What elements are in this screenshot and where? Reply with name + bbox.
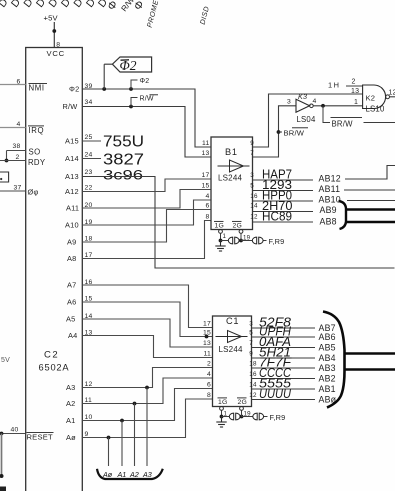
svg-text:5V: 5V (1, 357, 10, 364)
wire B1 pin 5 with value 1293 (253, 190, 314, 192)
svg-text:Φ2: Φ2 (140, 78, 150, 85)
wire A10 to B1 pin 4 (82, 200, 211, 225)
svg-text:17: 17 (203, 321, 211, 328)
B1 1G pin inversion bubble (219, 230, 223, 234)
svg-text:37: 37 (14, 184, 22, 191)
svg-text:2G: 2G (238, 399, 247, 406)
svg-text:2: 2 (207, 361, 211, 368)
svg-text:R/W: R/W (140, 95, 154, 102)
svg-text:R/W: R/W (63, 102, 78, 111)
junction dot SO/RDY (5, 159, 9, 163)
wire A4 to C1 pin 11 (82, 336, 212, 358)
junction dot A2 branch (133, 402, 137, 406)
B1 buffer symbol (218, 160, 250, 172)
wire RESET going down off-page (1, 434, 3, 477)
svg-text:IRQ: IRQ (29, 126, 45, 135)
svg-text:C2: C2 (44, 350, 59, 361)
svg-text:SO: SO (29, 148, 41, 157)
svg-text:C1: C1 (226, 316, 239, 326)
connector pair at C1 enables (229, 413, 240, 420)
svg-text:2G: 2G (233, 222, 242, 229)
svg-text:UUUU: UUUU (259, 386, 292, 401)
svg-text:A2: A2 (66, 399, 75, 408)
svg-text:12: 12 (389, 89, 395, 96)
wire A0 to C1 pin 8 (82, 399, 212, 438)
svg-text:15: 15 (203, 330, 211, 337)
wire AB10 to right edge (347, 200, 395, 202)
svg-text:40: 40 (11, 426, 19, 433)
svg-text:18: 18 (249, 361, 257, 368)
svg-text:K2: K2 (366, 93, 376, 102)
net flag box (cut off at left edge) (0, 172, 9, 182)
wire B1 pin 3 with value HAP7 (253, 179, 314, 181)
svg-text:K3: K3 (298, 92, 307, 101)
svg-text:4: 4 (313, 98, 317, 105)
svg-text:Aø: Aø (102, 470, 113, 479)
junction dot A3 branch (145, 386, 149, 390)
junction dot on +5V wire (52, 29, 56, 33)
C1 1G pin inversion bubble (220, 407, 224, 411)
net label BR/W with overline at K2 (323, 106, 330, 123)
wire A13 down and across to right edge (82, 177, 394, 269)
svg-text:RDY: RDY (28, 158, 46, 167)
svg-text:A12: A12 (65, 187, 79, 196)
bus wire thick lower from C1 brace (344, 368, 395, 370)
svg-text:RESET: RESET (27, 433, 53, 442)
ground symbol below C1 (216, 417, 226, 428)
svg-text:AB1: AB1 (319, 384, 336, 394)
svg-text:23: 23 (85, 169, 93, 176)
svg-text:6: 6 (207, 382, 211, 389)
wire A2 drop to connector brace (134, 404, 136, 467)
svg-text:17: 17 (202, 172, 210, 179)
svg-text:11: 11 (202, 140, 209, 147)
wire A2 to C1 pin 4 (82, 378, 212, 404)
wire B1 ground node to connector (221, 240, 229, 242)
net label BR/W (279, 131, 283, 133)
svg-text:5: 5 (249, 330, 253, 337)
svg-text:AB11: AB11 (319, 184, 341, 194)
wire B1 pin 12 with value HC89 (253, 221, 314, 223)
svg-text:LS244: LS244 (219, 345, 243, 354)
svg-text:HC89: HC89 (262, 209, 292, 224)
wire A7 to C1 pin 17 (82, 285, 212, 328)
svg-text:AB9: AB9 (320, 205, 337, 215)
wire A5 to C1 pin 13 (82, 319, 212, 347)
wire C1 output with value UUUU (252, 399, 316, 401)
buffer U-C1 74LS244 body (213, 316, 252, 407)
svg-text:Φ2: Φ2 (69, 85, 79, 94)
svg-text:BR/W: BR/W (332, 120, 354, 129)
junction dot R/W label leader (129, 105, 133, 109)
wire B1 pin 16 with value HPP0 (253, 200, 314, 202)
svg-text:A11: A11 (66, 204, 79, 213)
wire B1 pin 7 (BR/W) up to K3 input (253, 106, 297, 157)
svg-text:14: 14 (250, 203, 258, 210)
svg-text:3c96: 3c96 (103, 167, 143, 183)
junction dot bottom of RESET drop (0, 474, 4, 478)
wire A1 to C1 pin 6 (82, 389, 212, 421)
svg-text:12: 12 (249, 392, 257, 399)
wire PHI2 pin39 to B1 pin 11 (82, 89, 211, 147)
wire B1 pin 14 with value 2H70 (253, 211, 314, 213)
svg-text:22: 22 (85, 185, 93, 192)
wire C1 output with value CCCC (252, 378, 316, 380)
svg-text:1: 1 (223, 233, 227, 240)
svg-text:A8: A8 (67, 254, 76, 263)
pin 2 RDY wire (0, 160, 26, 162)
buffer U-B1 74LS244 body (211, 137, 253, 230)
svg-text:13: 13 (351, 88, 359, 95)
net flag PHI2 pennant (104, 57, 151, 72)
svg-text:A3: A3 (66, 383, 75, 392)
svg-text:A10: A10 (65, 221, 79, 230)
svg-text:1: 1 (354, 99, 358, 106)
svg-text:4: 4 (207, 371, 211, 378)
wire A3 drop to connector brace (146, 388, 148, 467)
wire R/W pin34 to B1 pin 13 (82, 107, 211, 158)
svg-text:A5: A5 (66, 315, 75, 324)
svg-text:Øφ: Øφ (28, 188, 39, 197)
svg-text:13: 13 (202, 150, 210, 157)
wire connector to label F,R9 (264, 240, 267, 242)
wire B1 2G to second connector (241, 240, 253, 242)
junction dot on C1 pin 15 wire (205, 335, 209, 339)
svg-text:A13: A13 (65, 172, 79, 181)
brace under A0-A3 (97, 469, 163, 479)
svg-text:AB6: AB6 (319, 332, 336, 342)
wire B1 2G pin 19 down (240, 233, 242, 240)
NAND gate K2 LS10 (363, 85, 386, 109)
wire A0 drop to connector brace (108, 438, 110, 467)
wire C1 output with value UPFH (252, 336, 316, 338)
svg-text:2: 2 (352, 79, 356, 86)
wire A9 to B1 pin 6 (82, 210, 211, 243)
wire C1 1G to ground (221, 410, 223, 416)
wire AB12 to right edge with jog (345, 166, 395, 180)
svg-text:AB5: AB5 (319, 343, 336, 353)
pin 40 RESET wire (0, 433, 26, 435)
B1 2G pin inversion bubble (239, 230, 243, 234)
svg-text:1G: 1G (218, 399, 227, 406)
svg-text:A4: A4 (68, 331, 77, 340)
svg-text:BR/W: BR/W (284, 128, 305, 137)
wire B1 1G to ground (220, 233, 222, 240)
svg-text:LS10: LS10 (366, 104, 385, 113)
wire A12 to B1 pin 17 (82, 179, 211, 192)
wire C1 output with value 0AFA (252, 347, 316, 349)
junction dot C1 ground node (220, 415, 224, 419)
svg-text:LS04: LS04 (297, 115, 316, 124)
ground symbol below B1 (215, 241, 225, 252)
wire C1 output with value 5555 (252, 388, 316, 390)
svg-text:3: 3 (287, 99, 291, 106)
wire C1 output with value 52F8 (252, 327, 316, 329)
svg-text:NMI: NMI (29, 84, 45, 93)
svg-text:AB4: AB4 (319, 353, 336, 363)
net label R/W on wire (131, 98, 138, 107)
wire connector to label F,R9 (C1) (264, 416, 268, 418)
wire C1 output with value 7F7F (252, 367, 316, 369)
data bus labels D0-D7 (rotated, cut off at top) (0, 0, 110, 10)
svg-text:A3: A3 (142, 470, 152, 479)
svg-text:5: 5 (250, 183, 254, 190)
svg-text:A2: A2 (129, 470, 139, 479)
svg-text:1H: 1H (328, 81, 340, 90)
wire B1 pin 9 up to K2 pin 13 (253, 94, 363, 147)
junction dot A1 branch (120, 419, 124, 423)
pin 4 IRQ wire (0, 127, 26, 129)
svg-text:14: 14 (249, 382, 257, 389)
wire BR/W continuing right (364, 122, 395, 124)
svg-text:+5V: +5V (44, 14, 59, 23)
svg-text:A1: A1 (117, 470, 127, 479)
junction dot phi2 label leader (129, 87, 133, 91)
bus brace AB9/AB8 (339, 201, 347, 229)
svg-text:6: 6 (206, 203, 210, 210)
wire AB11 to right edge (344, 189, 395, 191)
connector pair at B1 enables (228, 237, 239, 244)
pin 37 PHI0 wire (0, 190, 26, 192)
connector pair to F-R9 (C1) (253, 413, 264, 420)
svg-text:VCC: VCC (47, 49, 65, 58)
svg-text:4: 4 (206, 193, 210, 200)
svg-text:16: 16 (250, 193, 258, 200)
junction dot B1 ground node (219, 239, 223, 243)
inverter K3 LS04 (296, 99, 310, 112)
svg-text:F,R9: F,R9 (269, 237, 285, 246)
svg-text:A9: A9 (67, 238, 76, 247)
svg-text:7: 7 (250, 150, 254, 157)
bus wire AB9 thick (346, 208, 395, 210)
wire C1 2G to second connector (242, 416, 254, 418)
wire C1 output with value 5H21 (252, 357, 316, 359)
pin 6 NMI wire (0, 84, 26, 86)
svg-text:AB8: AB8 (320, 216, 337, 226)
svg-text:4: 4 (17, 121, 21, 128)
svg-text:24: 24 (85, 152, 93, 159)
svg-text:A7: A7 (67, 281, 76, 290)
svg-text:7: 7 (249, 340, 253, 347)
svg-text:AB2: AB2 (319, 374, 336, 384)
bus wire thick upper from C1 brace (344, 352, 395, 354)
net label PHI2 on wire (131, 80, 138, 89)
svg-text:755U: 755U (103, 134, 144, 151)
svg-text:A14: A14 (65, 154, 79, 163)
junction dot C1 2G node (240, 415, 244, 419)
svg-text:A15: A15 (65, 137, 79, 146)
svg-text:LS244: LS244 (218, 174, 242, 183)
wire K2 output pin 12 (390, 96, 395, 98)
wire A15 stub (82, 140, 101, 142)
C1 buffer symbol (216, 331, 248, 343)
svg-text:B1: B1 (225, 147, 238, 157)
wire C1 2G pin 19 down (241, 410, 243, 416)
svg-text:2: 2 (16, 154, 20, 161)
C1 2G pin inversion bubble (240, 407, 244, 411)
junction dot A0 branch (107, 436, 111, 440)
CPU U-C2 6502A body (26, 48, 83, 491)
wire SO branch down to RDY node (6, 151, 8, 161)
bus wire AB8 thick (346, 221, 395, 223)
svg-text:AB12: AB12 (319, 174, 341, 184)
svg-text:12: 12 (250, 214, 258, 221)
svg-text:11: 11 (204, 351, 211, 358)
svg-text:1G: 1G (215, 222, 224, 229)
connector pair to F-R9 (B1) (252, 237, 263, 244)
wire A1 drop to connector brace (121, 421, 123, 467)
svg-text:16: 16 (249, 371, 257, 378)
wire A11 to B1 pin 15 (82, 190, 211, 209)
svg-text:3: 3 (249, 321, 253, 328)
wire C1 ground node to connector (222, 416, 230, 418)
svg-text:13: 13 (203, 340, 211, 347)
wire +5V to VCC pin 8 (53, 22, 55, 48)
wire K3 output to K2 pin 1 (313, 105, 362, 107)
svg-text:6: 6 (17, 78, 21, 85)
svg-text:6502A: 6502A (39, 363, 70, 373)
junction dot on RESET wire (0, 432, 3, 436)
svg-text:9: 9 (249, 351, 253, 358)
junction dot phi2/pennant (102, 87, 106, 91)
svg-text:15: 15 (202, 183, 210, 190)
junction dot B1 2G node (239, 239, 243, 243)
svg-text:38: 38 (13, 143, 21, 150)
wire A14 stub (82, 158, 101, 160)
junction dot on K3 output (321, 104, 325, 108)
svg-text:A6: A6 (67, 298, 76, 307)
svg-text:AB3: AB3 (319, 363, 336, 373)
svg-text:AB10: AB10 (319, 195, 341, 205)
svg-text:F,R9: F,R9 (270, 413, 286, 422)
svg-text:3: 3 (250, 172, 254, 179)
svg-text:25: 25 (85, 134, 93, 141)
svg-text:34: 34 (85, 99, 93, 106)
svg-text:Aø: Aø (66, 433, 76, 442)
svg-text:9: 9 (250, 140, 254, 147)
bus brace AB7-AB0 (323, 312, 345, 408)
wire A6 to C1 pin 15 (82, 302, 212, 337)
pin 38 SO wire (7, 150, 26, 152)
wire A8 to B1 pin 8 (82, 221, 211, 259)
component cut off at bottom left (0, 487, 6, 491)
wire K2 pin 2 (346, 85, 363, 87)
svg-text:8: 8 (206, 214, 210, 221)
wire A3 to C1 pin 2 (82, 368, 212, 388)
svg-text:A1: A1 (66, 416, 75, 425)
junction dot BR/W label (277, 130, 281, 134)
svg-text:8: 8 (207, 392, 211, 399)
